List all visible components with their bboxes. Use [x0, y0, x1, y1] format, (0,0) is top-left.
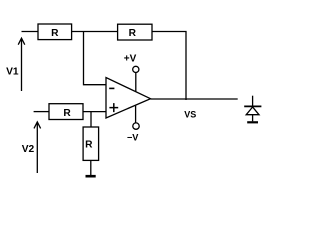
resistor R (middle-left input) — [49, 104, 83, 120]
resistor R (to ground, vertical) — [83, 127, 99, 160]
svg-text:−V: −V — [127, 132, 139, 142]
op-amp non-inverting pin plus sign — [109, 103, 118, 112]
diode D1 cathode bar — [244, 105, 261, 107]
op-amp inverting pin minus sign — [109, 87, 114, 89]
wire +V stub — [135, 73, 137, 92]
svg-text:R: R — [129, 28, 137, 39]
wire -V stub — [135, 106, 137, 123]
wire node down to grounded resistor — [90, 112, 92, 127]
wire R to non-inverting input — [83, 111, 106, 113]
svg-text:V2: V2 — [22, 144, 35, 155]
op-amp U1 — [106, 78, 151, 119]
diode D1 triangle — [246, 107, 259, 115]
svg-text:VS: VS — [184, 110, 196, 120]
wire op-amp output to VS — [151, 98, 238, 100]
wire V1 input lead — [22, 31, 39, 33]
svg-text:R: R — [63, 108, 71, 119]
+V terminal circle — [133, 66, 139, 72]
diode D1 bottom lead — [252, 115, 254, 122]
svg-text:+V: +V — [124, 54, 137, 65]
resistor R (feedback) — [118, 24, 152, 40]
source arrow V1 — [18, 38, 25, 91]
svg-text:R: R — [85, 140, 93, 151]
source arrow V2 — [34, 122, 41, 173]
wire R to feedback node — [72, 31, 118, 33]
svg-text:V1: V1 — [6, 66, 19, 77]
diode D1 top lead — [252, 96, 254, 106]
diode D1 anode terminal bar — [247, 121, 258, 123]
ground — [86, 175, 96, 178]
-V terminal circle — [133, 123, 139, 129]
wire resistor to ground — [90, 160, 92, 175]
wire feedback resistor to output node — [152, 32, 186, 101]
svg-text:R: R — [51, 28, 59, 39]
wire node down to inverting input — [84, 32, 107, 85]
resistor R (top-left input) — [38, 24, 72, 40]
wire V2 input lead — [34, 111, 50, 113]
